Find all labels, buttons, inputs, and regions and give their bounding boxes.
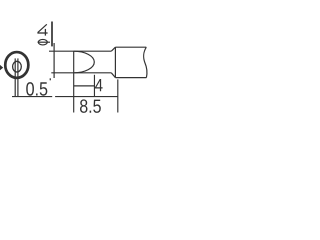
end view: inner circle (tip cone): [13, 61, 22, 72]
side view: top edge of tip cylinder: [49, 50, 111, 52]
4 dimension line: [74, 85, 95, 87]
small mark below tip edge: [50, 78, 51, 80]
8.5 dimension extension line at barrel: [117, 79, 119, 112]
side view: break S-curve at right end: [144, 47, 147, 77]
rotated digit 4: diagonal stroke: [38, 24, 47, 32]
side view: bottom taper to barrel: [111, 73, 115, 78]
phi4 leader vertical segment: [51, 22, 53, 47]
dimension text 0.5: [26, 82, 47, 96]
end view: chisel slot right line: [17, 58, 19, 96]
dimension text 4: [95, 79, 103, 91]
rotated digit 4: crossbar stroke: [44, 29, 46, 36]
side view: chisel face boundary (half ellipse): [74, 51, 95, 73]
side view: barrel bottom edge: [115, 77, 146, 79]
rotated diameter label phi: bowl: [38, 39, 47, 45]
side view: bottom edge of tip cylinder: [51, 72, 111, 74]
leader line under 0.5: [12, 96, 52, 98]
end view: outer circle (barrel): [5, 52, 28, 78]
8.5 dimension line: [55, 96, 118, 98]
leader arrow at left edge pointing to circle: [0, 65, 3, 70]
rotated diameter label phi: bar: [38, 41, 50, 43]
side view: chord line at bevel start / extension to 8.5 dim: [73, 51, 75, 112]
side view: top taper to barrel: [111, 47, 115, 51]
end view: chisel slot left line: [14, 58, 16, 96]
dimension text 8.5: [80, 99, 101, 112]
side view: barrel left face: [114, 47, 116, 77]
side view: barrel top edge: [115, 46, 146, 48]
phi4 dimension line: [53, 43, 55, 78]
4 dimension extension line at ellipse apex: [93, 75, 95, 97]
rotated digit 4: stem stroke: [37, 32, 47, 34]
